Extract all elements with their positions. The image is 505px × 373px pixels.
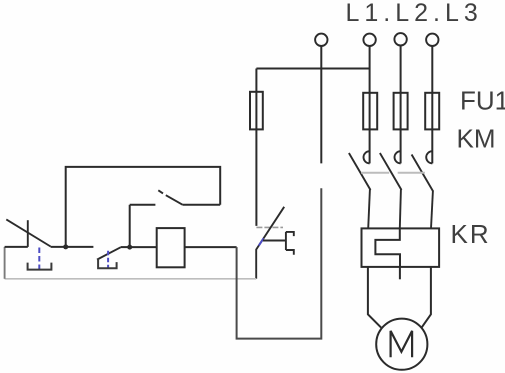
wire L1 stem bbox=[369, 46, 371, 163]
motor M bbox=[376, 319, 427, 370]
KM aux contact blade bbox=[158, 190, 182, 205]
wire coil right bbox=[185, 246, 237, 248]
fuse FU1 phase 2 bbox=[394, 93, 408, 130]
contactor KM main contact 2 bbox=[380, 151, 402, 228]
fuse FU1 phase 1 bbox=[363, 93, 377, 130]
wire L3 stem bbox=[431, 46, 433, 163]
stop pushbutton SB1 blade bbox=[6, 219, 50, 246]
svg-text:KR: KR bbox=[451, 219, 491, 249]
wire aux to node B bbox=[129, 205, 131, 247]
wire motor left bbox=[368, 267, 381, 328]
wire motor middle stub bbox=[399, 267, 401, 279]
KR heater element bbox=[375, 228, 400, 267]
svg-text:KM: KM bbox=[457, 124, 496, 154]
wire top feeder bbox=[256, 68, 369, 70]
KM aux contact left wire bbox=[130, 204, 156, 206]
KR NC contact fixed tick (gray) bbox=[256, 226, 283, 228]
contactor KM main contact 1 bbox=[349, 151, 371, 228]
wire node B to coil bbox=[130, 246, 157, 248]
stop pushbutton SB1 post bbox=[27, 220, 29, 247]
start pushbutton SB2 cap bbox=[98, 259, 117, 269]
terminal L2 bbox=[394, 33, 406, 45]
KM linkage dash 1 bbox=[361, 172, 389, 174]
stop pushbutton SB1 plunger dash bbox=[38, 248, 40, 271]
svg-text:L1.L2.L3: L1.L2.L3 bbox=[346, 0, 483, 27]
wire coil return loop bbox=[237, 188, 322, 338]
node A junction bbox=[63, 244, 68, 249]
coil KM bbox=[157, 228, 185, 267]
stop pushbutton SB1 cap bbox=[28, 263, 52, 270]
wire motor right bbox=[422, 267, 431, 328]
terminal T (control tap) bbox=[315, 34, 327, 46]
wire L2 stem bbox=[400, 46, 402, 164]
KM aux contact right wire bbox=[183, 204, 221, 206]
wire control tap stem bbox=[320, 46, 322, 163]
KR NC contact blue mark bbox=[259, 238, 264, 245]
wire self-hold loop bbox=[66, 167, 221, 247]
fuse FU1 phase 3 bbox=[425, 93, 439, 130]
node B junction bbox=[127, 245, 132, 250]
KR NC contact blade bbox=[256, 207, 284, 279]
start pushbutton SB2 plunger dash bbox=[107, 251, 109, 269]
wire bottom return (light) bbox=[5, 278, 257, 280]
wire stop-button left bbox=[5, 246, 28, 248]
terminal L1 bbox=[363, 34, 375, 46]
thermal relay KR heater box bbox=[362, 228, 440, 267]
wire start to node B bbox=[121, 246, 130, 248]
KR NC contact release bracket bbox=[263, 232, 294, 255]
terminal L3 bbox=[426, 34, 438, 46]
start pushbutton SB2 blade bbox=[97, 247, 121, 259]
contactor KM main contact 3 bbox=[412, 151, 434, 228]
wire left riser bbox=[4, 247, 6, 279]
fuse FU2 (control) bbox=[255, 69, 257, 226]
wire stop to start bbox=[51, 246, 94, 248]
svg-text:FU1: FU1 bbox=[460, 86, 505, 116]
KM linkage dash 2 bbox=[398, 172, 425, 174]
